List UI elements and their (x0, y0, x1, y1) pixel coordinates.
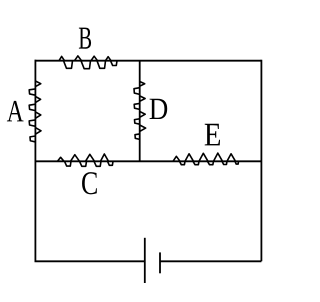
label B (79, 28, 91, 49)
label A (7, 101, 24, 121)
battery long plate (144, 238, 146, 283)
resistor D (134, 82, 146, 140)
resistor B (59, 56, 117, 69)
battery short plate (159, 252, 161, 273)
resistor E (173, 153, 239, 165)
wire middle rail horizontal through C and E positions (35, 160, 262, 162)
wire bottom side right of battery (160, 260, 261, 262)
resistor A (29, 81, 41, 142)
wire bottom side left of battery (35, 260, 145, 262)
label C (82, 172, 97, 194)
label E (205, 124, 220, 146)
wire left side through resistor A position (34, 60, 36, 261)
resistor C (58, 154, 114, 166)
wire middle branch vertical through resistor D position (139, 61, 141, 162)
wire top side (node between A, B) to (right side) (35, 60, 262, 62)
wire right side (260, 60, 262, 261)
label D (150, 99, 168, 119)
